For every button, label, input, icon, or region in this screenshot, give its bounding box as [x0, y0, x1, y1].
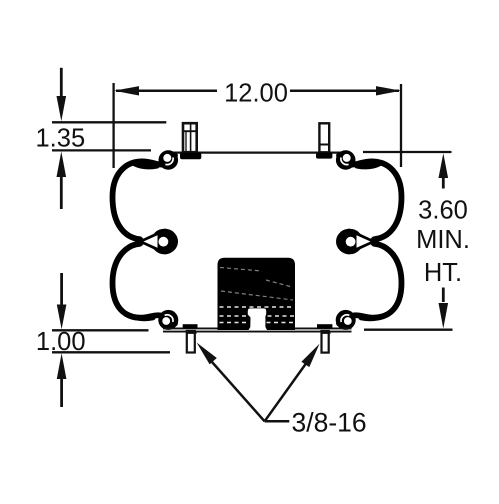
top-left bead curl — [159, 150, 179, 170]
bottom-left stud cap — [183, 324, 198, 328]
top bead plate line — [166, 151, 348, 153]
dimension 12.00 extension line right — [400, 84, 402, 167]
dimension 1.35 extension line bottom — [52, 149, 151, 151]
bellows lower-right lobe — [339, 244, 402, 324]
dimension 1.00 up arrow — [60, 378, 63, 407]
bottom-right bead curl — [336, 310, 356, 330]
svg-text:1.35: 1.35 — [36, 124, 86, 152]
dimension 1.35 down arrow — [60, 68, 63, 98]
bellows lower-left lobe — [113, 244, 176, 324]
bottom-left stud (3/8-16) — [187, 331, 195, 353]
girdle ring left — [137, 239, 167, 253]
svg-text:1.00: 1.00 — [36, 328, 86, 356]
top-right mounting stud — [319, 123, 329, 152]
leader 3/8-16 left arm with arrowhead to left bottom stud — [212, 362, 265, 421]
leader 3/8-16 right arm with arrowhead to right bottom stud — [265, 364, 306, 422]
top-right bead curl — [336, 150, 356, 170]
bumper (internal rubber bumper) — [218, 258, 296, 330]
bellows upper-left lobe — [113, 156, 176, 240]
leader 3/8-16 horizontal tick — [265, 420, 290, 423]
svg-text:12.00: 12.00 — [224, 79, 288, 107]
svg-text:3.60: 3.60 — [418, 197, 468, 225]
bumper slot — [248, 308, 267, 330]
bottom bead plate double line — [163, 327, 352, 329]
bottom-right stud (3/8-16) — [322, 331, 329, 353]
girdle ring right — [348, 239, 378, 253]
dimension 3.60 down arrow — [442, 288, 445, 303]
dimension 12.00 line right segment with arrowhead — [290, 90, 399, 93]
dimension 12.00 extension line left — [112, 83, 114, 168]
dimension 3.60 up arrow — [442, 178, 445, 189]
svg-text:HT.: HT. — [424, 259, 462, 287]
dimension 3.60 extension line bottom — [364, 329, 453, 331]
dimension 12.00 line left segment with arrowhead — [116, 90, 217, 93]
dimension 1.35 up arrow — [60, 177, 63, 209]
svg-text:3/8-16: 3/8-16 — [292, 408, 367, 438]
top-left mounting stud — [183, 123, 197, 152]
bottom-right stud cap — [317, 324, 332, 328]
bellows upper-right lobe — [339, 156, 402, 240]
dimension 1.00 down arrow — [60, 273, 63, 306]
bottom-left bead curl — [158, 310, 178, 330]
svg-text:MIN.: MIN. — [416, 226, 470, 254]
dimension 1.35 extension line top — [52, 121, 166, 123]
dimension 1.00 extension line bottom — [52, 351, 170, 353]
dimension 3.60 extension line top — [363, 151, 452, 153]
dimension 1.00 extension line top — [52, 329, 149, 331]
bumper texture lines — [220, 307, 295, 323]
